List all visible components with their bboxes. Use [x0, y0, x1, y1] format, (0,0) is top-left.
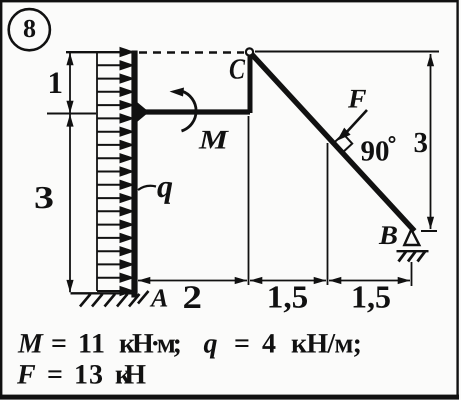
svg-text:8: 8	[23, 14, 36, 43]
svg-text:q: q	[157, 168, 173, 204]
svg-text:B: B	[378, 220, 398, 250]
svg-text:1: 1	[48, 65, 64, 100]
svg-text:кН/м;: кН/м;	[291, 329, 362, 360]
svg-text:=: =	[234, 329, 250, 360]
svg-text:11: 11	[78, 329, 105, 360]
svg-text:F: F	[16, 360, 36, 391]
svg-text:13: 13	[74, 360, 103, 391]
svg-text:4: 4	[262, 329, 276, 360]
svg-text:=: =	[51, 329, 67, 360]
svg-text:C: C	[229, 54, 246, 86]
svg-text:=: =	[47, 360, 63, 391]
svg-text:3: 3	[34, 179, 54, 215]
svg-text:кН·м;: кН·м;	[119, 329, 182, 360]
svg-text:M: M	[198, 125, 229, 155]
svg-text:1,5: 1,5	[351, 279, 391, 315]
svg-text:2: 2	[183, 280, 203, 316]
svg-text:M: M	[17, 329, 44, 360]
svg-text:1,5: 1,5	[267, 279, 309, 315]
svg-text:F: F	[347, 84, 367, 114]
svg-text:q: q	[204, 329, 218, 360]
svg-text:A: A	[149, 284, 168, 313]
svg-text:3: 3	[414, 127, 429, 159]
svg-text:кН: кН	[115, 360, 146, 391]
svg-text:90: 90	[361, 136, 390, 168]
